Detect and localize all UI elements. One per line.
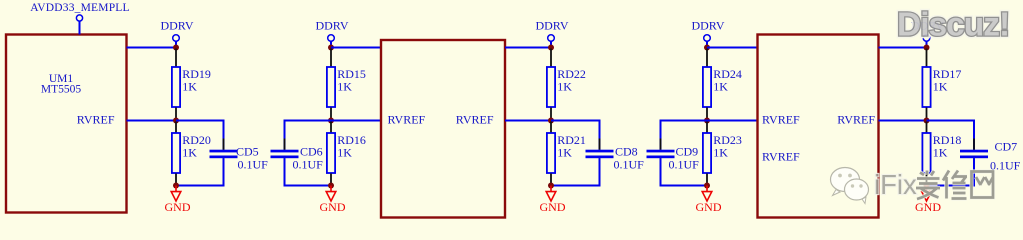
wire IC box 2 RVREF to node 3 xyxy=(505,120,551,122)
power port circle DDRV 1 xyxy=(173,35,180,42)
svg-text:RVREF: RVREF xyxy=(762,112,800,126)
svg-text:1K: 1K xyxy=(557,146,572,160)
iFix watermark WeChat icon xyxy=(831,168,869,204)
wire capacitor CD7 to GND node xyxy=(927,185,975,187)
junction GND node 5 xyxy=(924,183,930,189)
wire capacitor CD6 top lead xyxy=(284,120,286,150)
svg-text:GND: GND xyxy=(320,200,346,214)
wire DDRV circle stub 5 xyxy=(926,41,928,47)
svg-text:GND: GND xyxy=(696,200,722,214)
capacitor CD8 plates xyxy=(586,150,614,153)
wire DDRV node 2 to IC box 2 xyxy=(331,47,381,49)
capacitor CD6 plates xyxy=(271,150,299,153)
power port circle DDRV 5 xyxy=(923,35,930,42)
svg-text:iFix: iFix xyxy=(874,169,917,200)
svg-text:Discuz!: Discuz! xyxy=(897,7,1009,44)
wire DDRV circle stub 3 xyxy=(550,41,552,47)
wire capacitor CD7 top lead xyxy=(973,120,975,150)
svg-text:RVREF: RVREF xyxy=(762,149,800,163)
wire capacitor CD7 bottom lead xyxy=(973,158,975,169)
wire RVREF node 2 to IC box 2 xyxy=(331,120,381,122)
resistor RD15 1K xyxy=(330,49,332,68)
svg-text:AVDD33_MEMPLL: AVDD33_MEMPLL xyxy=(30,2,130,14)
wire capacitor CD5 bottom lead xyxy=(223,158,225,169)
junction RVREF node 3 xyxy=(548,118,554,124)
junction DDRV node 2 xyxy=(328,45,334,51)
junction RVREF node 1 xyxy=(173,118,179,124)
svg-text:0.1UF: 0.1UF xyxy=(293,157,324,171)
svg-text:1K: 1K xyxy=(337,80,352,94)
wire RVREF node to capacitor CD8 xyxy=(551,120,600,122)
Discuz! watermark logo xyxy=(897,7,1009,44)
junction GND node 1 xyxy=(173,183,179,189)
wire DDRV circle stub 2 xyxy=(330,41,332,47)
wire capacitor CD9 top lead xyxy=(660,120,662,150)
svg-text:RVREF: RVREF xyxy=(77,112,115,126)
svg-text:DDRV: DDRV xyxy=(315,19,348,33)
junction DDRV node 3 xyxy=(548,45,554,51)
ground symbol GND 5 xyxy=(926,186,928,192)
wire DDRV circle stub 4 xyxy=(706,41,708,47)
IC UM1 MT5505 box xyxy=(6,35,127,213)
resistor RD23 1K xyxy=(706,122,708,134)
capacitor CD7 plates xyxy=(960,150,988,153)
wire IC box 4 to DDRV node 5 xyxy=(879,47,927,49)
wire capacitor CD5 to GND node xyxy=(176,185,224,187)
svg-text:0.1UF: 0.1UF xyxy=(669,157,700,171)
ground symbol GND 4 xyxy=(706,186,708,192)
resistor RD17 1K xyxy=(926,49,928,68)
power port circle DDRV 2 xyxy=(328,35,335,42)
wire UM1 RVREF pin to node 1 xyxy=(127,120,177,122)
wire UM1 to DDRV node 1 xyxy=(127,47,177,49)
wire capacitor CD6 to GND node xyxy=(285,185,332,187)
svg-text:DDRV: DDRV xyxy=(691,19,724,33)
wire capacitor CD8 to GND node xyxy=(551,185,600,187)
svg-text:RVREF: RVREF xyxy=(456,112,494,126)
wire capacitor CD9 bottom lead xyxy=(660,158,662,169)
wire RVREF node to capacitor CD5 xyxy=(176,120,224,122)
wire capacitor CD5 top lead xyxy=(223,120,225,150)
resistor RD16 1K xyxy=(330,122,332,134)
wire IC box 2 to DDRV node 3 xyxy=(505,47,551,49)
junction GND node 2 xyxy=(328,183,334,189)
IC box 2 xyxy=(381,40,505,218)
wire AVDD33_MEMPLL to UM1 xyxy=(79,21,81,35)
capacitor CD9 plates xyxy=(647,150,675,153)
resistor RD24 1K xyxy=(706,49,708,68)
wire capacitor CD9 to GND node xyxy=(661,185,708,187)
ground symbol GND 1 xyxy=(175,186,177,192)
iFix watermark text iFix xyxy=(874,169,917,200)
power port circle DDRV 4 xyxy=(704,35,711,42)
junction GND node 3 xyxy=(548,183,554,189)
svg-text:DDRV: DDRV xyxy=(160,19,193,33)
svg-text:CD7: CD7 xyxy=(995,140,1018,154)
junction DDRV node 1 xyxy=(173,45,179,51)
iFix watermark character WANG (net) xyxy=(972,172,994,198)
junction RVREF node 2 xyxy=(328,118,334,124)
svg-text:GND: GND xyxy=(540,200,566,214)
wire DDRV circle stub 1 xyxy=(175,41,177,47)
svg-text:1K: 1K xyxy=(933,146,948,160)
resistor RD20 1K xyxy=(175,122,177,134)
IC box 4 xyxy=(758,35,879,218)
wire RVREF node to capacitor CD9 xyxy=(661,120,708,122)
resistor RD19 1K xyxy=(175,49,177,68)
svg-text:GND: GND xyxy=(165,200,191,214)
power port circle AVDD33_MEMPLL xyxy=(76,15,82,21)
resistor RD21 1K xyxy=(550,122,552,134)
svg-text:GND: GND xyxy=(915,200,941,214)
svg-text:0.1UF: 0.1UF xyxy=(614,157,645,171)
ground symbol GND 2 xyxy=(330,186,332,192)
junction RVREF node 5 xyxy=(924,118,930,124)
svg-text:0.1UF: 0.1UF xyxy=(238,157,269,171)
resistor RD22 1K xyxy=(550,49,552,68)
ground symbol GND 3 xyxy=(550,186,552,192)
svg-text:RVREF: RVREF xyxy=(388,112,426,126)
svg-text:1K: 1K xyxy=(933,80,948,94)
resistor RD18 1K xyxy=(926,122,928,134)
wire RVREF node to capacitor CD6 xyxy=(285,120,332,122)
svg-text:1K: 1K xyxy=(713,80,728,94)
capacitor CD5 plates xyxy=(210,150,238,153)
svg-text:1K: 1K xyxy=(182,146,197,160)
wire IC box 4 RVREF to node 5 xyxy=(879,120,927,122)
junction DDRV node 5 xyxy=(924,45,930,51)
junction DDRV node 4 xyxy=(704,45,710,51)
svg-text:RVREF: RVREF xyxy=(837,112,875,126)
junction RVREF node 4 xyxy=(704,118,710,124)
wire RVREF node to capacitor CD7 xyxy=(927,120,975,122)
wire capacitor CD8 bottom lead xyxy=(599,158,601,169)
wire DDRV node 4 to IC box 4 xyxy=(707,47,758,49)
junction GND node 4 xyxy=(704,183,710,189)
power port circle DDRV 3 xyxy=(548,35,555,42)
svg-text:DDRV: DDRV xyxy=(535,19,568,33)
iFix watermark character AI (love) xyxy=(916,171,940,200)
wire capacitor CD8 top lead xyxy=(599,120,601,150)
svg-text:1K: 1K xyxy=(557,80,572,94)
svg-text:MT5505: MT5505 xyxy=(41,84,82,96)
wire capacitor CD6 bottom lead xyxy=(284,158,286,169)
wire RVREF node 4 to IC box 4 xyxy=(707,120,758,122)
svg-text:1K: 1K xyxy=(182,80,197,94)
svg-text:1K: 1K xyxy=(713,146,728,160)
iFix watermark character XIU (repair) xyxy=(943,171,967,199)
svg-text:1K: 1K xyxy=(337,146,352,160)
